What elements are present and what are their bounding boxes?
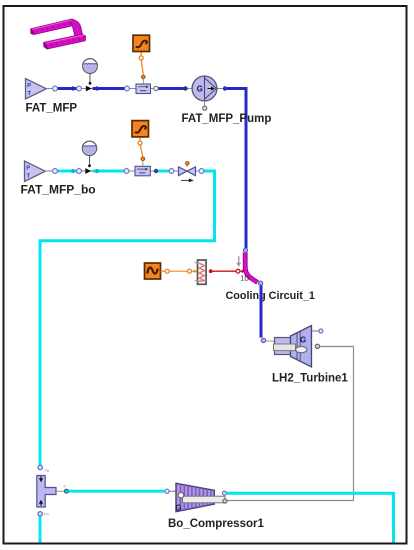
pin ports row1 (open circles) — [53, 86, 159, 91]
junction dots row2 — [71, 169, 158, 173]
wire pump outlet to cooling circuit (blue) — [227, 89, 246, 249]
pin port under block1 — [139, 56, 143, 60]
pin stem junction right — [56, 489, 68, 493]
turbine LH2_Turbine1 — [274, 326, 312, 368]
pin stem B2 to signal — [141, 157, 145, 167]
pin compressor shaft flange — [223, 499, 227, 503]
compressor Bo_Compressor1 — [175, 483, 225, 512]
pin port valve top (orange) — [186, 162, 190, 166]
wire shaft turbine to compressor (gray) — [227, 347, 353, 501]
pump FAT_MFP_Pump P1 — [192, 76, 217, 101]
svg-text:FAT_MFP_Pump: FAT_MFP_Pump — [182, 113, 272, 125]
svg-text:T: T — [27, 174, 31, 180]
source FAT_MFP (boundary triangle U1) — [26, 79, 47, 100]
pin turbine shaft flange — [315, 344, 319, 348]
valve V1 — [179, 165, 196, 175]
signal wire (orange) block2 to B2 — [140, 145, 143, 157]
source FAT_MFP_bo (boundary triangle U2) — [25, 161, 46, 182]
svg-text:Bo_Compressor1: Bo_Compressor1 — [168, 518, 264, 530]
pin port turbine inlet — [261, 338, 265, 342]
orifice/pipe element B2 — [135, 166, 150, 176]
orifice/pipe element B1 — [136, 84, 151, 94]
wire row1 blue pipe segments — [57, 87, 184, 90]
svg-text:LH2_Turbine1: LH2_Turbine1 — [272, 373, 348, 385]
gray arrow onto cooling circuit — [236, 256, 241, 267]
pin ports row2 (open circles) — [53, 169, 204, 174]
signal block S2 (table, orange) — [132, 121, 149, 137]
junction dots row1 — [71, 86, 227, 90]
signal wire (orange) S3 to heater — [169, 270, 187, 272]
svg-text:Cooling Circuit_1: Cooling Circuit_1 — [226, 290, 315, 302]
svg-text:P: P — [26, 165, 30, 171]
pin stem B1 to signal — [141, 75, 145, 84]
pin port compressor inlet — [165, 489, 169, 493]
wire junction to compressor (cyan) — [69, 490, 165, 493]
pin turbine top-right — [312, 329, 324, 333]
svg-text:Fb: Fb — [44, 512, 49, 517]
wire heater to cooling circuit (red) — [213, 270, 236, 272]
pin port junction bottom — [38, 512, 42, 516]
svg-text:Fb: Fb — [45, 468, 50, 473]
junction splitter J1 — [37, 476, 56, 508]
svg-text:T: T — [28, 91, 32, 97]
pin port junction top — [38, 465, 42, 469]
pin port compressor outlet — [222, 491, 226, 495]
cooling pipe CoolingCircuit_1 (magenta) — [245, 253, 257, 283]
svg-text:P: P — [27, 83, 31, 89]
logo ribbon (magenta) — [31, 19, 86, 49]
svg-text:FAT_MFP: FAT_MFP — [26, 103, 78, 115]
wire junction bottom to border (cyan) — [39, 517, 42, 543]
signal block S1 (table, orange) — [133, 35, 150, 51]
pin port cooling circuit heat input (red ring) — [236, 269, 240, 273]
signal wire (orange) block1 to B1 — [141, 60, 143, 75]
wire compressor outlet to border (cyan) — [227, 493, 394, 542]
pin heater output (red) — [209, 269, 213, 273]
flow direction arrow under valve — [181, 178, 194, 182]
signal block S3 (sine, orange) — [145, 263, 161, 279]
pin stem pump bottom — [203, 101, 207, 110]
pin port S3 output — [165, 269, 169, 273]
flow arrow on row2 pipe — [85, 168, 91, 174]
flow arrow on row1 pipe — [86, 86, 92, 92]
svg-text:G: G — [300, 335, 306, 344]
heater H1 (electric coil) — [195, 260, 206, 284]
wire valve outlet loop to bottom junction (cyan) — [40, 171, 215, 465]
tank sensor T1 (liquid level) — [82, 59, 98, 85]
pin port cooling circuit bottom — [259, 281, 263, 285]
wire row1 thin baseline — [46, 88, 227, 90]
wire cooling circuit to turbine (blue) — [260, 286, 263, 338]
wire row2 cyan pipe segments — [57, 170, 170, 173]
svg-text:G: G — [197, 85, 203, 94]
pin port under block2 — [138, 141, 142, 145]
svg-text:G: G — [175, 504, 181, 513]
svg-text:1D: 1D — [240, 275, 249, 282]
wire row2 thin baseline — [45, 170, 203, 172]
pin port heater input (orange) — [188, 269, 192, 273]
pin port cooling circuit top — [243, 248, 247, 252]
svg-text:FAT_MFP_bo: FAT_MFP_bo — [21, 183, 96, 197]
tank sensor T2 (liquid level) — [82, 141, 98, 167]
